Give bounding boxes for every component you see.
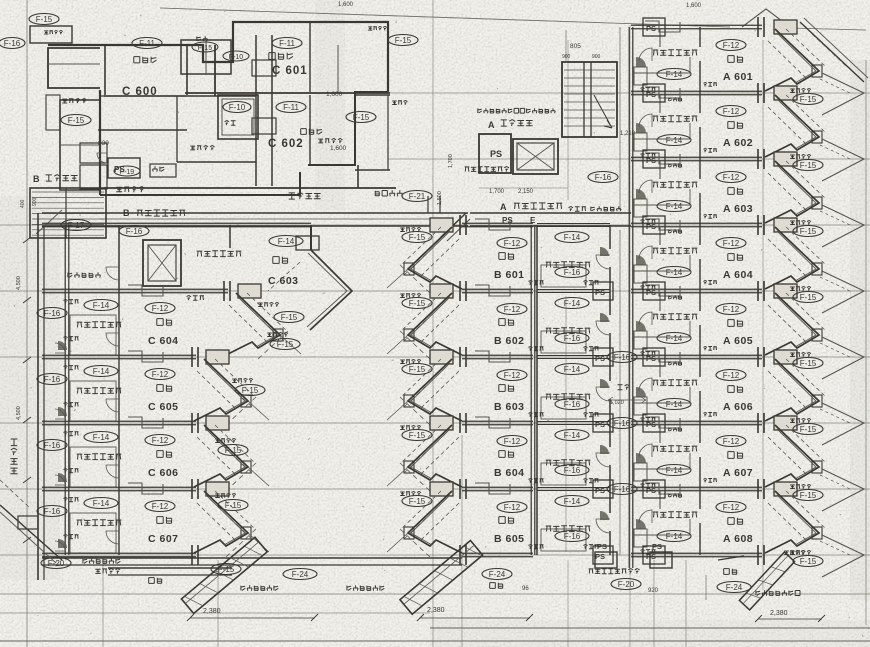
A wing labels — [641, 40, 824, 567]
svg-text:F-15: F-15 — [800, 161, 817, 170]
svg-text:F-16: F-16 — [614, 419, 631, 428]
svg-text:F-20: F-20 — [48, 559, 65, 568]
svg-text:900: 900 — [32, 197, 38, 206]
bottom-left roof labels — [41, 558, 317, 584]
svg-text:F-20: F-20 — [618, 580, 635, 589]
svg-text:F-17: F-17 — [68, 221, 85, 230]
unit B603 walls — [387, 347, 535, 425]
svg-text:F-12: F-12 — [723, 107, 740, 116]
svg-text:C 600: C 600 — [122, 86, 158, 98]
top block outer walls — [48, 8, 866, 195]
B wing labels — [400, 227, 527, 545]
svg-text:900: 900 — [592, 54, 601, 60]
svg-text:F-16: F-16 — [595, 173, 612, 182]
svg-text:F-15: F-15 — [800, 95, 817, 104]
corridor labels — [108, 158, 432, 237]
svg-text:F-12: F-12 — [723, 437, 740, 446]
bottom-left corner partial structure — [0, 480, 62, 563]
svg-text:C 604: C 604 — [148, 335, 179, 347]
svg-text:PS: PS — [490, 149, 502, 159]
svg-text:F-15: F-15 — [800, 227, 817, 236]
svg-text:F-15: F-15 — [353, 113, 370, 122]
svg-text:F-15: F-15 — [800, 293, 817, 302]
top block labels — [0, 2, 702, 176]
svg-text:F-15: F-15 — [409, 299, 426, 308]
svg-text:C 603: C 603 — [268, 275, 299, 287]
unit A608 walls — [629, 479, 864, 577]
svg-text:1,020: 1,020 — [610, 400, 624, 406]
svg-text:F-12: F-12 — [723, 503, 740, 512]
svg-text:A 604: A 604 — [723, 269, 753, 281]
svg-text:F-11: F-11 — [283, 103, 299, 112]
svg-text:C 602: C 602 — [268, 138, 304, 150]
left dimension ticks — [16, 237, 31, 543]
svg-text:F-24: F-24 — [489, 570, 506, 579]
svg-text:F-12: F-12 — [152, 370, 169, 379]
svg-text:F-12: F-12 — [723, 173, 740, 182]
svg-text:F-16: F-16 — [44, 375, 61, 384]
svg-text:2,150: 2,150 — [518, 189, 534, 195]
svg-text:F-12: F-12 — [723, 371, 740, 380]
A wing top-right corner partial tooth — [800, 18, 868, 82]
unit B602 walls — [387, 281, 535, 359]
svg-text:F-15: F-15 — [242, 386, 259, 395]
B elevator shaft — [68, 240, 204, 300]
svg-text:B 602: B 602 — [494, 335, 525, 347]
svg-text:F-11: F-11 — [139, 39, 155, 48]
svg-text:830: 830 — [98, 140, 109, 147]
svg-text:1,600: 1,600 — [338, 2, 354, 8]
svg-text:F-12: F-12 — [504, 503, 521, 512]
svg-text:1,700: 1,700 — [448, 154, 454, 168]
unit C603 walls — [42, 223, 352, 330]
svg-text:F-24: F-24 — [726, 583, 743, 592]
svg-text:F-16: F-16 — [44, 309, 61, 318]
svg-text:F-12: F-12 — [152, 502, 169, 511]
svg-text:F-15: F-15 — [277, 340, 294, 349]
svg-text:F-16: F-16 — [4, 39, 21, 48]
C603 labels — [197, 236, 304, 323]
svg-text:PS: PS — [595, 552, 605, 561]
svg-text:B: B — [123, 208, 130, 218]
unit C604 walls — [42, 281, 301, 359]
svg-text:F-16: F-16 — [44, 507, 61, 516]
unit A605 walls — [629, 281, 864, 379]
svg-text:F-16: F-16 — [564, 268, 581, 277]
svg-text:F-15: F-15 — [800, 491, 817, 500]
unit A607 walls — [629, 413, 864, 511]
corridor B wing — [42, 196, 470, 241]
unit C606 walls — [42, 413, 269, 491]
svg-text:F-16: F-16 — [614, 353, 631, 362]
svg-text:PS: PS — [595, 288, 605, 297]
svg-text:F-15: F-15 — [36, 15, 53, 24]
svg-text:F-15: F-15 — [281, 313, 298, 322]
unit A604 walls — [629, 215, 864, 313]
svg-text:F-14: F-14 — [278, 237, 295, 246]
A wing boundary PS boxes — [643, 18, 717, 564]
svg-text:A 601: A 601 — [723, 71, 753, 83]
svg-text:C 607: C 607 — [148, 533, 179, 545]
svg-text:A 607: A 607 — [723, 467, 753, 479]
svg-text:B 604: B 604 — [494, 467, 525, 479]
svg-text:F-15: F-15 — [225, 501, 242, 510]
unit B604 walls — [387, 413, 535, 491]
svg-text:F-10: F-10 — [229, 103, 246, 112]
svg-text:F-16: F-16 — [44, 441, 61, 450]
A wing bottom wall — [629, 545, 764, 568]
svg-text:F-15: F-15 — [800, 359, 817, 368]
bottom-right roof label — [706, 569, 751, 600]
svg-text:96: 96 — [522, 586, 529, 592]
svg-text:B 601: B 601 — [494, 269, 525, 281]
unit A606 walls — [629, 347, 864, 445]
svg-text:F-15: F-15 — [409, 431, 426, 440]
A stair labels — [478, 108, 555, 130]
svg-text:F-14: F-14 — [666, 400, 683, 409]
bottom-right skylight — [686, 550, 825, 647]
svg-text:F-14: F-14 — [93, 367, 110, 376]
svg-text:F-12: F-12 — [152, 304, 169, 313]
svg-text:4,500: 4,500 — [16, 406, 22, 420]
svg-text:2,380: 2,380 — [427, 607, 445, 614]
svg-text:A 605: A 605 — [723, 335, 753, 347]
svg-text:F-15: F-15 — [68, 116, 85, 125]
svg-text:F-14: F-14 — [666, 70, 683, 79]
svg-text:F-15: F-15 — [800, 425, 817, 434]
svg-text:920: 920 — [648, 588, 659, 594]
svg-text:A: A — [488, 120, 495, 130]
svg-text:1,600: 1,600 — [330, 145, 347, 152]
svg-text:C 601: C 601 — [272, 65, 308, 77]
svg-text:1,600: 1,600 — [686, 3, 702, 9]
svg-text:A 606: A 606 — [723, 401, 753, 413]
svg-text:F-12: F-12 — [504, 239, 521, 248]
bottom-middle roof labels — [482, 542, 672, 594]
svg-text:F-14: F-14 — [93, 433, 110, 442]
PS / dust chute block — [437, 134, 618, 205]
svg-text:A: A — [500, 202, 507, 212]
C wing labels — [37, 299, 300, 545]
svg-text:2,380: 2,380 — [203, 608, 221, 615]
svg-text:F-14: F-14 — [666, 532, 683, 541]
svg-text:F-10: F-10 — [229, 54, 244, 61]
svg-text:F-15: F-15 — [198, 45, 213, 52]
svg-text:F-15: F-15 — [409, 365, 426, 374]
svg-text:C 606: C 606 — [148, 467, 179, 479]
svg-text:A 603: A 603 — [723, 203, 753, 215]
svg-text:F-11: F-11 — [279, 39, 295, 48]
C wing bottom — [42, 545, 232, 575]
svg-text:A 608: A 608 — [723, 533, 753, 545]
unit A601 walls — [629, 17, 864, 115]
svg-text:B 605: B 605 — [494, 533, 525, 545]
B outside stair — [20, 174, 106, 238]
svg-text:F-15: F-15 — [409, 233, 426, 242]
unit C607 walls — [42, 479, 269, 557]
unit B605 walls — [387, 479, 535, 557]
svg-text:F-15: F-15 — [218, 565, 235, 574]
svg-text:F-14: F-14 — [666, 334, 683, 343]
svg-text:900: 900 — [562, 54, 571, 60]
top-left balcony annex — [30, 26, 186, 190]
svg-text:PS: PS — [652, 542, 662, 551]
svg-text:F-12: F-12 — [504, 371, 521, 380]
svg-text:F-12: F-12 — [152, 436, 169, 445]
svg-text:F-15: F-15 — [395, 36, 412, 45]
svg-text:F-14: F-14 — [93, 499, 110, 508]
bottom-middle skylight — [347, 541, 533, 621]
svg-text:PS: PS — [646, 24, 656, 33]
svg-text:4,500: 4,500 — [16, 276, 22, 290]
svg-text:F-12: F-12 — [723, 41, 740, 50]
mid bath column — [529, 224, 647, 565]
svg-text:1,500: 1,500 — [437, 191, 443, 205]
svg-text:F-14: F-14 — [666, 466, 683, 475]
svg-text:F-14: F-14 — [564, 233, 581, 242]
bottom-left skylight — [181, 537, 318, 621]
svg-text:PS: PS — [114, 165, 125, 174]
svg-text:PS: PS — [595, 486, 605, 495]
svg-text:PS: PS — [597, 542, 607, 551]
svg-text:F-16: F-16 — [614, 485, 631, 494]
svg-text:F-14: F-14 — [666, 268, 683, 277]
svg-text:1,700: 1,700 — [489, 189, 505, 195]
svg-text:B: B — [33, 174, 40, 184]
unit A602 walls — [629, 83, 864, 181]
svg-text:F-15: F-15 — [409, 497, 426, 506]
svg-text:PS: PS — [595, 354, 605, 363]
svg-text:PS: PS — [595, 420, 605, 429]
svg-text:F-14: F-14 — [666, 136, 683, 145]
svg-text:B 603: B 603 — [494, 401, 525, 413]
svg-text:805: 805 — [570, 43, 581, 50]
svg-text:F-15: F-15 — [225, 446, 242, 455]
C wing left corridor — [10, 213, 44, 580]
svg-text:F-16: F-16 — [126, 227, 143, 236]
svg-text:C 605: C 605 — [148, 401, 179, 413]
svg-text:400: 400 — [20, 199, 26, 208]
unit C605 walls — [42, 347, 269, 425]
A corridor — [470, 202, 631, 226]
B wing bottom wall — [42, 545, 533, 565]
svg-text:2,380: 2,380 — [770, 610, 788, 617]
svg-text:F-14: F-14 — [666, 202, 683, 211]
svg-text:1,600: 1,600 — [326, 91, 343, 98]
svg-text:F-14: F-14 — [93, 301, 110, 310]
unit A603 walls — [629, 149, 864, 247]
svg-text:F-12: F-12 — [504, 437, 521, 446]
svg-text:F-12: F-12 — [723, 305, 740, 314]
svg-text:A 602: A 602 — [723, 137, 753, 149]
svg-text:F-15: F-15 — [800, 557, 817, 566]
svg-text:F-24: F-24 — [292, 570, 309, 579]
svg-text:F-12: F-12 — [504, 305, 521, 314]
svg-text:F-21: F-21 — [409, 192, 426, 201]
unit B601 walls — [387, 215, 535, 293]
svg-text:F-12: F-12 — [723, 239, 740, 248]
A outside stair — [562, 30, 636, 137]
